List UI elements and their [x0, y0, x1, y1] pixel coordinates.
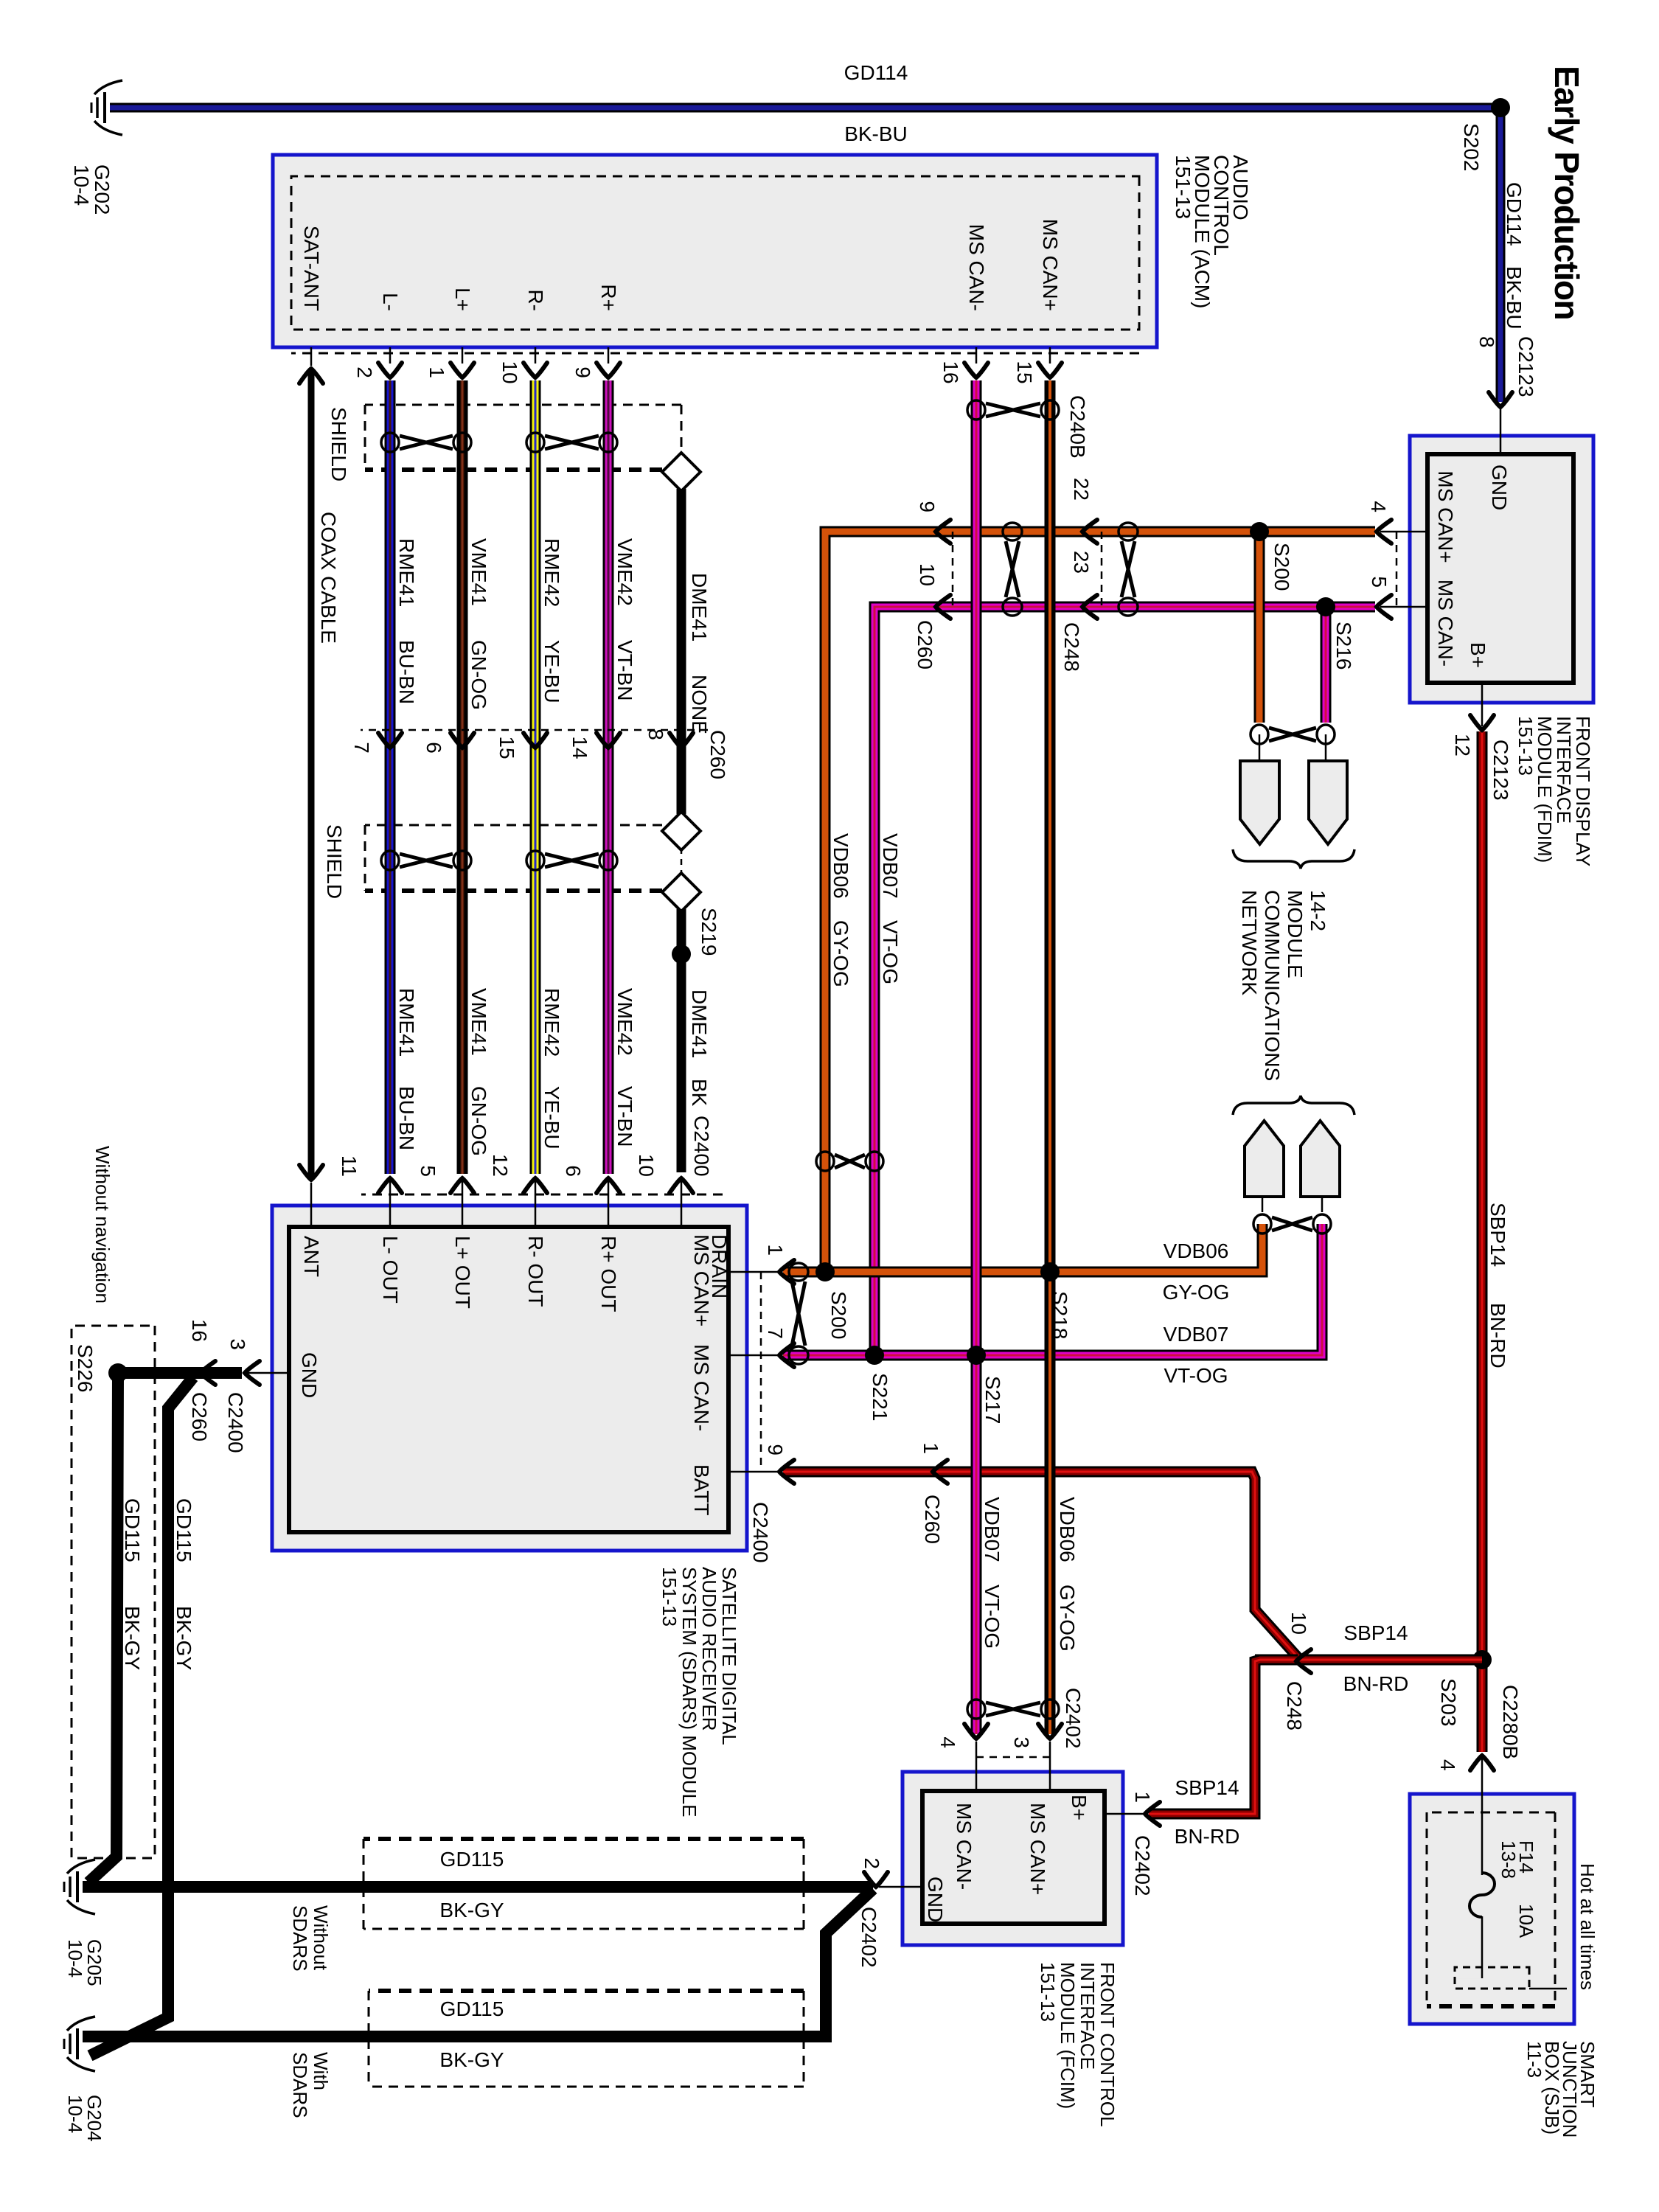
svg-text:GD115: GD115 — [440, 1997, 504, 2020]
wire DME41 drain shield — [677, 489, 686, 814]
splice S202 — [1491, 98, 1510, 117]
svg-text:B+: B+ — [1068, 1795, 1091, 1820]
splice S200 — [1250, 522, 1269, 541]
with SDARS dashed box — [369, 1991, 804, 2087]
svg-text:RME42: RME42 — [540, 988, 563, 1057]
svg-text:15: 15 — [1013, 361, 1036, 383]
svg-text:VT-BN: VT-BN — [613, 1086, 636, 1147]
svg-text:1: 1 — [1131, 1791, 1154, 1803]
svg-text:6: 6 — [422, 742, 445, 754]
wire SBP14 BN-RD S203 down to C248 pin 10 — [1255, 1655, 1482, 1666]
svg-text:R-: R- — [524, 289, 547, 311]
svg-text:23: 23 — [1070, 551, 1093, 574]
svg-text:C2400: C2400 — [690, 1116, 713, 1177]
connector C2400 pin 1 arrow at SDARS MS CAN+ — [779, 1260, 794, 1284]
svg-text:S221: S221 — [869, 1373, 891, 1421]
connector C248 pins 22-23 arrows — [1082, 520, 1097, 543]
svg-text:SHIELD: SHIELD — [323, 824, 346, 899]
svg-text:C260: C260 — [914, 620, 936, 669]
svg-text:Early Production: Early Production — [1548, 66, 1586, 319]
svg-text:VT-OG: VT-OG — [981, 1585, 1004, 1649]
svg-text:7: 7 — [764, 1327, 787, 1339]
svg-text:S203: S203 — [1437, 1678, 1460, 1726]
wire GD114 BK-BU S202 to FDIM GND pin 8 — [1496, 103, 1506, 402]
svg-text:9: 9 — [764, 1444, 787, 1455]
svg-text:7: 7 — [350, 742, 373, 754]
svg-text:SBP14: SBP14 — [1486, 1203, 1509, 1267]
svg-text:R+ OUT: R+ OUT — [597, 1236, 620, 1312]
svg-text:G202: G202 — [91, 164, 114, 215]
svg-text:C248: C248 — [1283, 1681, 1306, 1731]
svg-text:SATELLITE DIGITAL: SATELLITE DIGITAL — [718, 1567, 740, 1745]
svg-text:BK-GY: BK-GY — [173, 1606, 195, 1670]
twisted pair symbol audio left pair shield2 — [453, 851, 471, 870]
svg-text:10-4: 10-4 — [64, 2095, 86, 2133]
wire SBP14 BN-RD C248 corner to FCIM B+ — [1149, 1660, 1298, 1814]
wire VDB07 VT-OG splice S216 stub to off-page — [1321, 607, 1332, 723]
connector C2123 pin 12 arrow at FDIM B+ — [1470, 715, 1494, 730]
connector C260 pin 1 arrow on SBP14 — [933, 1460, 947, 1484]
svg-text:BK-GY: BK-GY — [439, 2048, 504, 2071]
splice S216 — [1316, 597, 1335, 616]
connector C2280B pin 4 arrow at SJB — [1470, 1756, 1494, 1770]
connector C2402 pins 3-4 arrows at FCIM CAN — [1038, 1724, 1062, 1739]
svg-text:MS CAN+: MS CAN+ — [1026, 1803, 1049, 1895]
svg-text:RME41: RME41 — [395, 538, 418, 607]
svg-text:GN-OG: GN-OG — [467, 640, 490, 710]
svg-text:BU-BN: BU-BN — [395, 640, 418, 704]
svg-text:S226: S226 — [74, 1344, 97, 1392]
connector C2402 pin 2 arrow at FCIM GND — [864, 1872, 888, 1887]
svg-text:GN-OG: GN-OG — [467, 1086, 490, 1156]
svg-text:12: 12 — [1451, 734, 1474, 757]
svg-text:MS CAN-: MS CAN- — [690, 1344, 713, 1431]
module box FCIM inner — [922, 1791, 1105, 1924]
SJB fuse holder dashed box — [1455, 1967, 1529, 1989]
svg-text:AUDIO RECEIVER: AUDIO RECEIVER — [698, 1567, 720, 1731]
svg-text:L+: L+ — [451, 288, 474, 311]
wire GD115 BK-GY S226 to G205 — [88, 1373, 118, 1882]
connector C2400 dashed line at SDARS CAN pins — [760, 1272, 762, 1472]
svg-text:16: 16 — [188, 1319, 211, 1342]
svg-text:9: 9 — [916, 501, 939, 512]
svg-text:BU-BN: BU-BN — [395, 1086, 418, 1150]
wire thin FCIM B+ pin lead — [1105, 1813, 1143, 1815]
svg-text:COAX CABLE: COAX CABLE — [317, 512, 340, 644]
svg-text:VDB07: VDB07 — [981, 1497, 1004, 1562]
shield drain diamond 1 — [662, 453, 700, 491]
svg-text:GD115: GD115 — [121, 1498, 144, 1562]
svg-text:GD115: GD115 — [173, 1498, 195, 1562]
shield dashed box 2 — [365, 825, 662, 891]
svg-text:FRONT CONTROL: FRONT CONTROL — [1096, 1962, 1119, 2126]
svg-text:5: 5 — [417, 1165, 439, 1177]
wire GD115 BK-GY FCIM GND branch to G204 (with SDARS) — [83, 1889, 873, 2037]
twisted pair symbol audio right pair shield2 — [599, 851, 617, 870]
svg-text:C2402: C2402 — [1062, 1688, 1085, 1749]
svg-text:INTERFACE: INTERFACE — [1077, 1962, 1099, 2070]
svg-text:S200: S200 — [827, 1291, 850, 1339]
svg-text:C2400: C2400 — [749, 1502, 772, 1563]
svg-text:10: 10 — [635, 1154, 658, 1177]
wire VME42 VT-BN R+ audio — [608, 347, 610, 364]
shield drain diamond 2 — [662, 812, 700, 850]
shield dashed box 1 — [365, 405, 681, 470]
brace right pair — [1233, 849, 1354, 869]
svg-text:BN-RD: BN-RD — [1486, 1303, 1509, 1368]
svg-text:4: 4 — [1367, 501, 1390, 512]
svg-text:VME42: VME42 — [613, 988, 636, 1056]
svg-text:L- OUT: L- OUT — [379, 1236, 402, 1304]
ACM connector dashed box — [291, 176, 1139, 330]
svg-text:C2402: C2402 — [1131, 1835, 1154, 1896]
svg-text:Without navigation: Without navigation — [91, 1146, 114, 1304]
connector C2123 pins 4-5 arrows at FDIM CAN — [1377, 520, 1391, 543]
twisted pair symbol audio right pair shield1 — [599, 433, 617, 452]
wire thin SDARS BATT pin lead — [728, 1471, 778, 1473]
svg-text:BK-BU: BK-BU — [1503, 266, 1526, 330]
wire GD115 BK-GY SDARS GND to S226 — [248, 1372, 289, 1374]
svg-text:SDARS: SDARS — [289, 1905, 311, 1972]
svg-text:Hot at all times: Hot at all times — [1576, 1863, 1599, 1990]
svg-text:MS CAN-: MS CAN- — [1434, 580, 1457, 667]
svg-text:1: 1 — [919, 1442, 942, 1454]
svg-text:11: 11 — [338, 1155, 361, 1177]
svg-text:S216: S216 — [1332, 622, 1355, 669]
svg-text:14-2: 14-2 — [1307, 890, 1329, 931]
SDARS connector face dashed line C2400 — [361, 1194, 723, 1196]
svg-text:C260: C260 — [188, 1392, 211, 1441]
twisted pair symbol at ACM CAN — [1041, 400, 1059, 420]
connector C248 pin 10 arrow on SBP14 — [1296, 1649, 1311, 1673]
off-page connector pentagon VDB07 left — [1301, 1121, 1340, 1197]
svg-text:C2400: C2400 — [224, 1392, 247, 1453]
wire coax SAT-ANT ACM to SDARS — [310, 347, 313, 366]
twisted pair symbol S200-S216 stubs — [1317, 725, 1335, 744]
wire GD115 BK-GY branch to G204 row — [90, 1377, 193, 2056]
connector C2402 dashed line at FCIM CAN — [976, 1756, 1050, 1759]
svg-text:DME41: DME41 — [688, 573, 711, 641]
svg-text:C2123: C2123 — [1489, 740, 1512, 801]
svg-text:R+: R+ — [597, 284, 620, 311]
svg-text:NONE: NONE — [688, 675, 711, 734]
connector C248 dashed line — [1101, 532, 1103, 607]
svg-text:C248: C248 — [1060, 622, 1083, 672]
svg-text:VT-OG: VT-OG — [879, 920, 902, 984]
svg-text:10: 10 — [1287, 1612, 1310, 1635]
svg-text:10-4: 10-4 — [70, 164, 93, 206]
svg-text:S219: S219 — [698, 908, 720, 956]
svg-text:11-3: 11-3 — [1523, 2041, 1545, 2078]
twisted pair symbol FDIM branch lower — [1003, 523, 1022, 540]
svg-text:SBP14: SBP14 — [1343, 1621, 1408, 1644]
svg-text:VME41: VME41 — [467, 988, 490, 1056]
twisted pair symbol FDIM branch pair mid — [866, 1152, 883, 1171]
svg-text:GY-OG: GY-OG — [1056, 1585, 1079, 1652]
wire SBP14 BN-RD C248 jog to SDARS BATT — [783, 1472, 1300, 1660]
connector C2400 pin 7 arrow at SDARS MS CAN- — [779, 1343, 794, 1367]
splice S218 — [1040, 1262, 1060, 1281]
connector C260 audio arrows — [378, 733, 402, 748]
svg-text:With: With — [310, 2052, 332, 2090]
wire VDB07 VT-OG FDIM MS CAN- branch — [1380, 606, 1427, 608]
svg-text:8: 8 — [644, 728, 667, 740]
svg-text:YE-BU: YE-BU — [540, 1086, 563, 1150]
svg-text:SDARS: SDARS — [289, 2052, 311, 2118]
wire SBP14 BN-RD S203 to SJB C2280B — [1477, 1660, 1488, 1752]
svg-text:SAT-ANT: SAT-ANT — [300, 226, 323, 311]
connector C260 pins 9-10 arrows — [936, 520, 950, 543]
off-page connector pentagon VDB06 right — [1240, 761, 1279, 844]
wire GD115 BK-GY FCIM GND to G205 (without SDARS) — [879, 1886, 922, 1888]
svg-text:L+ OUT: L+ OUT — [451, 1236, 474, 1309]
connector C2400-C260 arrows at SDARS GND — [245, 1361, 260, 1385]
SJB hot-at-all-times dashed box — [1427, 1812, 1555, 2006]
svg-text:GY-OG: GY-OG — [829, 920, 852, 987]
wire VME41 GN-OG L+ audio — [462, 347, 464, 364]
svg-text:4: 4 — [936, 1736, 959, 1748]
svg-text:BN-RD: BN-RD — [1175, 1825, 1240, 1848]
svg-text:GND: GND — [298, 1352, 321, 1398]
svg-text:C2402: C2402 — [858, 1907, 880, 1968]
ground G202 — [91, 80, 122, 135]
wire thin SJB fuse feed — [1481, 1757, 1484, 1875]
wire VDB06 GY-OG FDIM MS CAN+ branch — [1380, 531, 1427, 533]
svg-text:10A: 10A — [1515, 1904, 1537, 1938]
svg-text:3: 3 — [1010, 1736, 1033, 1748]
wire VDB06 GY-OG splice S200 stub to off-page — [1254, 532, 1265, 723]
svg-text:BN-RD: BN-RD — [1343, 1672, 1409, 1695]
module box FDIM outer — [1410, 436, 1593, 703]
svg-text:GD115: GD115 — [440, 1848, 504, 1871]
wire VDB07 VT-OG ACM MS CAN- bus to FCIM — [975, 347, 978, 364]
svg-text:3: 3 — [226, 1338, 249, 1350]
connector C2402 pin 1 arrow at FCIM B+ — [1145, 1802, 1160, 1826]
svg-text:YE-BU: YE-BU — [540, 640, 563, 703]
svg-text:15: 15 — [495, 736, 518, 759]
wire thin FDIM GND pin lead — [1500, 407, 1502, 454]
connector C2400 pin 9 arrow at SDARS BATT — [779, 1460, 794, 1484]
wire thin fuse to holder — [1481, 1916, 1484, 1978]
svg-text:SBP14: SBP14 — [1175, 1776, 1239, 1799]
off-page connector pentagon VDB07 right — [1325, 744, 1326, 761]
wire VDB06 vertical bus to SDARS MS CAN+ — [783, 1267, 825, 1278]
svg-text:COMMUNICATIONS: COMMUNICATIONS — [1261, 890, 1284, 1081]
svg-text:MS CAN-: MS CAN- — [965, 224, 988, 311]
svg-text:MS CAN-: MS CAN- — [953, 1803, 975, 1890]
svg-text:2: 2 — [353, 366, 376, 378]
svg-text:1: 1 — [425, 366, 448, 378]
svg-text:MS CAN+: MS CAN+ — [1434, 470, 1457, 563]
svg-text:VDB06: VDB06 — [1056, 1497, 1079, 1562]
svg-text:151-13: 151-13 — [1514, 716, 1537, 776]
svg-text:NETWORK: NETWORK — [1238, 890, 1261, 995]
twisted pair symbol FDIM branch upper — [1119, 523, 1138, 540]
splice S200 lower — [815, 1262, 835, 1281]
wire VDB06 GY-OG off-page re-entry to bus — [1262, 1197, 1264, 1212]
svg-text:VME41: VME41 — [467, 538, 490, 606]
splice S217 — [967, 1346, 986, 1365]
svg-text:2: 2 — [860, 1857, 883, 1869]
svg-text:VME42: VME42 — [613, 538, 636, 606]
twisted pair symbol at FCIM CAN — [1041, 1700, 1059, 1719]
svg-text:GD114: GD114 — [844, 61, 908, 84]
module box FCIM outer — [902, 1772, 1123, 1945]
svg-text:10-4: 10-4 — [64, 1939, 86, 1978]
svg-text:MS CAN+: MS CAN+ — [690, 1234, 713, 1326]
ground G205 — [64, 1860, 95, 1914]
connector C260 dashed line — [952, 532, 954, 607]
svg-text:VT-BN: VT-BN — [613, 640, 636, 700]
module box FDIM inner — [1427, 454, 1573, 683]
svg-text:4: 4 — [1436, 1759, 1459, 1771]
svg-text:GD114: GD114 — [1503, 182, 1526, 246]
svg-text:151-13: 151-13 — [658, 1567, 681, 1627]
twisted pair symbol at SDARS CAN leads — [789, 1263, 808, 1281]
svg-text:VDB06: VDB06 — [829, 833, 852, 899]
connector C2123 dashed line at FDIM CAN pins — [1396, 532, 1398, 607]
ACM pin arrows C240B — [299, 369, 323, 383]
svg-text:C240B: C240B — [1066, 395, 1089, 459]
svg-text:12: 12 — [489, 1154, 512, 1177]
svg-text:BATT: BATT — [690, 1464, 713, 1515]
svg-text:22: 22 — [1070, 478, 1093, 501]
wire VDB07 VT-OG off-page re-entry to bus — [1321, 1197, 1324, 1212]
fuse F14 element — [1470, 1873, 1495, 1917]
SJB fuse holder tick line — [1529, 1988, 1567, 1990]
svg-text:13-8: 13-8 — [1498, 1840, 1520, 1879]
shield drain diamond 3 — [662, 873, 700, 911]
svg-text:C2280B: C2280B — [1499, 1685, 1522, 1759]
wire RME41 BU-BN L- audio — [389, 347, 392, 364]
svg-text:GND: GND — [924, 1877, 947, 1922]
svg-text:S217: S217 — [981, 1376, 1004, 1424]
wire SBP14 BN-RD FDIM B+ to S203 — [1481, 683, 1484, 726]
wire GD114 BK-BU S202 to ground G202 — [110, 103, 1500, 113]
splice S226 — [108, 1363, 128, 1382]
svg-text:S202: S202 — [1460, 123, 1483, 171]
module box SDARS inner — [289, 1227, 728, 1532]
svg-text:C2123: C2123 — [1514, 336, 1537, 397]
svg-text:6: 6 — [562, 1165, 585, 1177]
connector C260 audio dashed line — [361, 729, 708, 731]
svg-text:C260: C260 — [921, 1495, 944, 1544]
svg-text:VDB07: VDB07 — [1164, 1323, 1229, 1346]
svg-text:151-13: 151-13 — [1172, 155, 1194, 219]
off-page connector pentagon VDB06 left — [1245, 1121, 1284, 1197]
svg-text:BK-GY: BK-GY — [439, 1899, 504, 1921]
module box SDARS outer — [272, 1206, 747, 1551]
SDARS audio pin arrows C2400 — [299, 1165, 323, 1180]
svg-text:B+: B+ — [1467, 642, 1489, 668]
without SDARS dashed box — [364, 1839, 804, 1929]
wire RME42 YE-BU R- audio — [535, 347, 537, 364]
twisted pair symbol audio left pair shield1 — [453, 433, 471, 452]
wire VDB07 vertical bus to SDARS MS CAN- — [783, 1350, 874, 1361]
svg-text:L-: L- — [379, 293, 402, 311]
svg-text:10: 10 — [498, 361, 521, 383]
ACM connector face dashed line — [291, 352, 1139, 355]
svg-text:Without: Without — [310, 1905, 332, 1971]
module box ACM (Audio Control Module) — [273, 155, 1157, 347]
svg-text:R- OUT: R- OUT — [524, 1236, 547, 1307]
svg-text:MODULE (FCIM): MODULE (FCIM) — [1057, 1962, 1079, 2109]
svg-text:MODULE: MODULE — [1284, 890, 1307, 978]
brace left pair — [1233, 1096, 1354, 1115]
svg-text:14: 14 — [568, 736, 591, 759]
svg-text:S200: S200 — [1270, 543, 1293, 591]
svg-text:VDB07: VDB07 — [879, 833, 902, 899]
svg-text:1: 1 — [764, 1244, 787, 1256]
svg-text:16: 16 — [939, 361, 962, 383]
ground G204 — [64, 2017, 95, 2071]
svg-text:5: 5 — [1368, 576, 1391, 588]
svg-text:BK: BK — [688, 1079, 711, 1107]
svg-text:RME42: RME42 — [540, 538, 563, 607]
wire VDB06 GY-OG ACM MS CAN+ bus to FCIM — [1049, 347, 1051, 364]
svg-text:GND: GND — [1488, 465, 1511, 510]
svg-text:9: 9 — [571, 366, 594, 378]
splice S203 — [1472, 1650, 1492, 1669]
svg-text:DME41: DME41 — [688, 990, 711, 1058]
twisted pair symbol off-page re-entry — [1313, 1214, 1331, 1234]
svg-text:ANT: ANT — [300, 1236, 323, 1277]
svg-text:BK-BU: BK-BU — [844, 122, 908, 145]
svg-text:VT-OG: VT-OG — [1164, 1364, 1228, 1387]
svg-text:SHIELD: SHIELD — [327, 407, 350, 481]
svg-text:10: 10 — [916, 563, 939, 586]
svg-text:S218: S218 — [1048, 1291, 1071, 1339]
svg-text:151-13: 151-13 — [1037, 1962, 1059, 2022]
svg-text:RME41: RME41 — [395, 988, 418, 1057]
svg-text:GY-OG: GY-OG — [1163, 1281, 1230, 1304]
svg-text:C260: C260 — [706, 730, 729, 779]
svg-text:MS CAN+: MS CAN+ — [1039, 219, 1062, 311]
svg-text:VDB06: VDB06 — [1164, 1239, 1229, 1262]
splice S219 — [672, 945, 691, 964]
connector C2123 pin 8 arrow at FDIM GND — [1489, 392, 1512, 407]
svg-text:BK-GY: BK-GY — [121, 1606, 144, 1670]
svg-text:8: 8 — [1475, 336, 1498, 348]
svg-text:SYSTEM (SDARS) MODULE: SYSTEM (SDARS) MODULE — [678, 1567, 700, 1818]
module box SJB outer — [1410, 1794, 1574, 2024]
splice S221 — [865, 1346, 884, 1365]
without navigation dashed box — [72, 1326, 155, 1858]
